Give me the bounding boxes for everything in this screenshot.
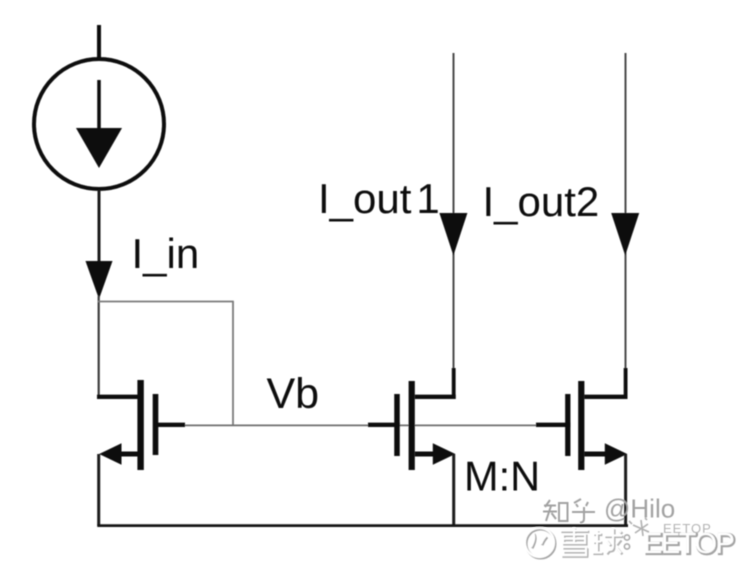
NMOS M3 [536,368,628,470]
svg-text:Vb: Vb [267,370,320,418]
wire: diode feedback vertical down to Vb rail [232,302,234,426]
wire: I_out2 vertical [625,53,627,370]
wire: diode feedback horizontal (drain node to gate column) [98,301,234,303]
wire: top supply lead into current source [97,25,101,58]
svg-text:I_out1: I_out1 [318,175,440,222]
NMOS M1 (diode connected, mirrored) [97,380,185,470]
watermark: colon mark [624,535,629,549]
wire: I_out1 vertical [453,53,455,370]
wire: Vb gate rail [158,424,568,426]
svg-text:@Hilo: @Hilo [604,494,675,524]
watermark: snow asterisk mark [629,518,649,536]
arrowhead: I_out2 current direction [611,213,639,256]
svg-text:I_in: I_in [132,230,200,277]
watermark: zhihu glyph 2 [572,499,595,523]
svg-text:I_out2: I_out2 [483,178,600,225]
watermark: xueqiu logo circle [525,528,555,558]
wire: I_in node down to M1 drain [98,296,100,397]
watermark: xueqiu glyph snow [560,528,589,557]
wire: M2 source down to ground rail [452,454,455,526]
current source I1 [34,59,164,189]
arrowhead: I_in current direction [86,261,113,299]
svg-text:EETOP: EETOP [643,528,733,560]
wire: current source output lead [98,190,101,264]
watermark: EETOP embossed [643,528,735,561]
watermark: zhihu glyph 1 [543,500,568,521]
NMOS M2 [368,368,456,470]
svg-text:M:N: M:N [464,453,540,500]
arrowhead: I_out1 current direction [439,213,467,256]
wire: M3 source down to ground rail [624,454,627,526]
watermark: xueqiu glyph ball [592,528,623,554]
ground rail wire [97,524,628,527]
wire: M1 source down to ground rail [97,454,100,526]
